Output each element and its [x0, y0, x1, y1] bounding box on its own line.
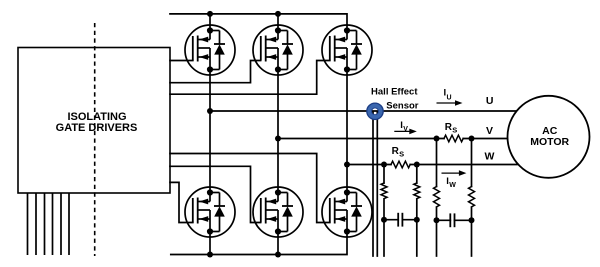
- svg-text:Sensor: Sensor: [386, 101, 419, 112]
- svg-text:W: W: [484, 151, 494, 163]
- svg-text:GATE DRIVERS: GATE DRIVERS: [56, 122, 138, 134]
- svg-text:U: U: [486, 95, 494, 107]
- svg-text:S: S: [399, 149, 404, 158]
- svg-text:ISOLATING: ISOLATING: [67, 111, 126, 123]
- svg-text:V: V: [403, 126, 408, 133]
- svg-text:Hall Effect: Hall Effect: [371, 87, 418, 98]
- svg-text:V: V: [486, 125, 493, 137]
- svg-text:MOTOR: MOTOR: [530, 136, 569, 148]
- svg-text:U: U: [447, 95, 452, 102]
- svg-text:S: S: [452, 126, 457, 135]
- svg-text:W: W: [449, 182, 456, 189]
